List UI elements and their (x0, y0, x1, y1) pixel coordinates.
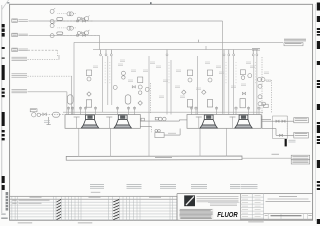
svg-text:FLUOR: FLUOR (217, 210, 238, 219)
